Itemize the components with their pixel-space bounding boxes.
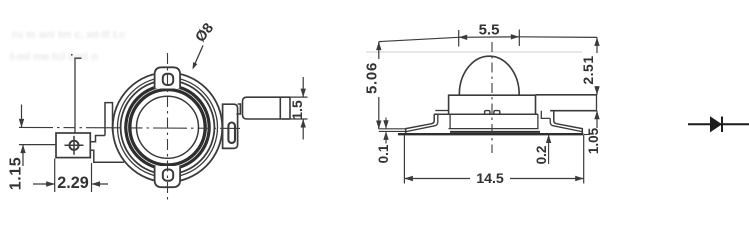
svg-text:5.06: 5.06 (363, 62, 380, 94)
svg-text:ru m ani tm c. wt-tt t.c: ru m ani tm c. wt-tt t.c (12, 29, 126, 41)
svg-text:1.5: 1.5 (289, 100, 305, 120)
svg-text:Ø8: Ø8 (193, 20, 218, 45)
svg-text:2.51: 2.51 (580, 55, 596, 84)
svg-text:1.15: 1.15 (8, 157, 25, 191)
svg-text:2.29: 2.29 (57, 174, 89, 192)
svg-text:0.1: 0.1 (376, 144, 391, 163)
svg-text:1.05: 1.05 (586, 127, 601, 154)
svg-text:0.2: 0.2 (534, 146, 549, 165)
svg-text:14.5: 14.5 (476, 171, 504, 187)
svg-text:t-ml me tcl umt n: t-ml me tcl umt n (10, 51, 98, 63)
svg-text:5.5: 5.5 (479, 21, 500, 38)
